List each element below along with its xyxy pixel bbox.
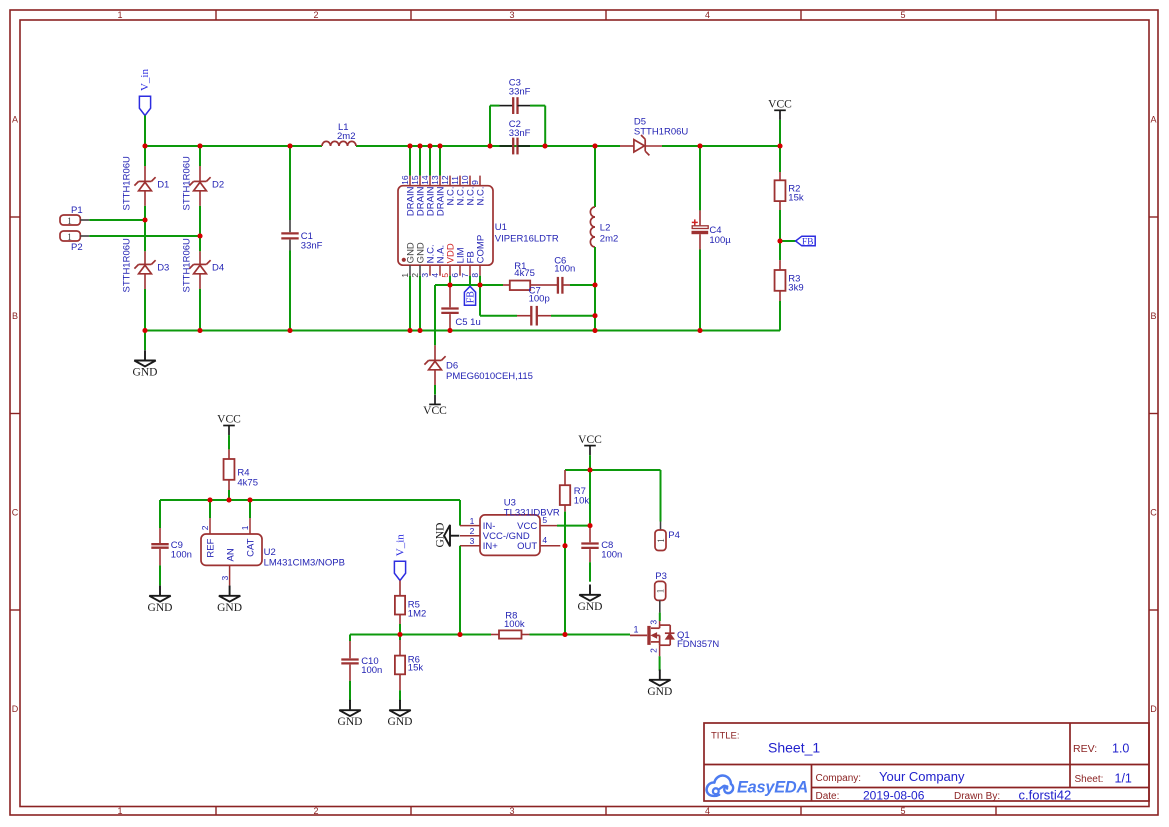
wire VCC rail	[565, 469, 661, 471]
svg-text:2: 2	[313, 10, 318, 20]
svg-text:7: 7	[460, 273, 470, 278]
svg-text:GND: GND	[647, 686, 672, 698]
ground	[133, 331, 158, 379]
ground	[388, 700, 413, 728]
svg-text:4: 4	[542, 535, 547, 545]
inductor L2 2m2	[590, 146, 618, 331]
diode D1 STTH1R06U	[121, 146, 169, 220]
node	[198, 234, 203, 239]
wire COMP to C7	[480, 285, 517, 316]
svg-text:B: B	[12, 311, 18, 321]
wire VDD to D6	[434, 285, 436, 345]
ground	[647, 670, 672, 698]
svg-text:33nF: 33nF	[509, 128, 531, 139]
svg-text:1.0: 1.0	[1112, 742, 1129, 756]
svg-text:REV:: REV:	[1073, 743, 1097, 755]
IC U2 LM431CIM3/NOPB	[200, 500, 345, 585]
svg-text:STTH1R06U: STTH1R06U	[634, 126, 689, 137]
svg-text:1: 1	[117, 806, 122, 816]
svg-text:D4: D4	[212, 263, 224, 274]
svg-text:100n: 100n	[601, 549, 622, 560]
capacitor C6 100n	[544, 256, 595, 294]
svg-text:1: 1	[657, 538, 667, 543]
svg-text:2: 2	[410, 273, 420, 278]
svg-text:COMP: COMP	[476, 235, 487, 264]
node junctions bottom rail	[143, 328, 703, 333]
svg-text:VCC: VCC	[517, 521, 537, 532]
capacitor C10 100n	[341, 635, 382, 701]
svg-text:FDN357N: FDN357N	[677, 639, 719, 650]
power flag VCC	[217, 414, 241, 450]
wire	[144, 116, 146, 147]
svg-text:Company:: Company:	[816, 773, 862, 784]
svg-text:GND: GND	[217, 602, 242, 614]
wire R7/OUT to lower rail	[564, 546, 566, 635]
capacitor C2 33nF	[500, 119, 531, 154]
wire lower rail	[350, 634, 630, 636]
svg-text:D3: D3	[157, 263, 169, 274]
connector P1	[60, 205, 89, 227]
resistor R8 100k	[491, 610, 530, 638]
node	[478, 283, 483, 288]
svg-text:13: 13	[430, 175, 440, 185]
svg-text:VCC: VCC	[768, 99, 792, 111]
svg-text:C: C	[12, 508, 19, 518]
diode D3 STTH1R06U	[121, 220, 169, 331]
wire	[89, 219, 145, 221]
wire R4 node to IN-	[459, 500, 461, 526]
resistor R3 3k9	[775, 241, 804, 331]
svg-text:1: 1	[633, 625, 638, 635]
net flag V_in	[394, 534, 406, 581]
IC U1 VIPER16LDTR	[398, 146, 559, 278]
wire U1 GND pins	[410, 276, 420, 331]
node	[593, 283, 598, 288]
svg-text:10k: 10k	[574, 496, 590, 507]
diode D5 STTH1R06U	[620, 117, 688, 156]
svg-text:GND: GND	[388, 716, 413, 728]
svg-text:2m2: 2m2	[600, 233, 618, 244]
svg-text:3: 3	[509, 806, 514, 816]
svg-text:GND: GND	[578, 601, 603, 613]
resistor R6 15k	[395, 635, 423, 701]
svg-text:5: 5	[900, 10, 905, 20]
svg-text:1: 1	[470, 516, 475, 526]
resistor R1 4k75	[503, 261, 544, 290]
svg-text:16: 16	[400, 175, 410, 185]
svg-text:1: 1	[117, 10, 122, 20]
svg-text:IN+: IN+	[483, 541, 499, 552]
ground	[217, 586, 242, 614]
svg-text:11: 11	[450, 176, 460, 185]
svg-text:8: 8	[470, 273, 480, 278]
ground	[338, 700, 363, 728]
node junctions	[398, 632, 568, 637]
svg-text:100p: 100p	[529, 294, 550, 305]
svg-text:OUT: OUT	[517, 541, 537, 552]
svg-text:CAT: CAT	[246, 538, 257, 556]
wire VDD node	[435, 276, 450, 285]
node	[448, 283, 453, 288]
svg-text:4: 4	[705, 806, 710, 816]
wire Q1 source to ground	[659, 656, 661, 671]
node OUT junction	[563, 543, 568, 548]
capacitor C5 1u	[441, 285, 480, 331]
connector P4	[655, 470, 680, 551]
svg-text:GND: GND	[148, 602, 173, 614]
wire U2 top rail	[160, 499, 460, 501]
svg-text:P4: P4	[668, 530, 680, 541]
svg-text:D: D	[1150, 704, 1157, 714]
resistor R5 1M2	[395, 581, 426, 635]
svg-text:14: 14	[420, 175, 430, 185]
svg-text:1: 1	[67, 217, 72, 227]
svg-text:A: A	[1150, 115, 1156, 125]
wire bottom rail	[145, 330, 780, 332]
svg-text:V_in: V_in	[394, 534, 406, 557]
transistor Q1 FDN357N	[630, 620, 719, 657]
svg-text:LM431CIM3/NOPB: LM431CIM3/NOPB	[264, 558, 345, 569]
wire	[589, 470, 591, 526]
wire VCC pin5	[557, 525, 590, 527]
connector P2	[60, 231, 89, 253]
svg-text:A: A	[12, 115, 18, 125]
svg-text:P3: P3	[655, 571, 667, 582]
inductor L1 2m2	[322, 122, 356, 146]
net flag FB	[464, 276, 476, 306]
svg-text:GND: GND	[434, 523, 446, 548]
svg-text:EasyEDA: EasyEDA	[737, 779, 808, 797]
svg-text:1: 1	[400, 273, 410, 278]
svg-text:5: 5	[900, 806, 905, 816]
node junctions top rail	[143, 144, 783, 149]
svg-text:15k: 15k	[788, 192, 804, 203]
svg-text:REF: REF	[206, 538, 217, 557]
svg-text:33nF: 33nF	[301, 241, 323, 252]
svg-text:C5 1u: C5 1u	[455, 317, 480, 328]
svg-text:L2: L2	[600, 223, 611, 234]
svg-text:D1: D1	[157, 180, 169, 191]
node	[588, 523, 593, 528]
svg-text:9: 9	[470, 180, 480, 185]
node	[593, 313, 598, 318]
svg-text:C: C	[1150, 508, 1157, 518]
capacitor C4 100u	[692, 146, 732, 331]
svg-text:3k9: 3k9	[788, 282, 803, 293]
resistor R7 10k	[560, 470, 590, 546]
svg-text:1: 1	[240, 525, 250, 530]
comparator U3 TL331IDBVR	[460, 498, 560, 556]
net flag V_in	[139, 69, 151, 116]
power flag VCC	[423, 395, 447, 417]
svg-text:Sheet_1: Sheet_1	[768, 740, 820, 756]
capacitor C3 33nF	[500, 77, 531, 114]
svg-text:P2: P2	[71, 242, 83, 253]
svg-text:AN: AN	[226, 548, 237, 561]
node junctions	[208, 498, 253, 503]
svg-text:100n: 100n	[554, 263, 575, 274]
wire	[89, 235, 200, 237]
resistor R2 15k	[775, 146, 804, 241]
svg-text:Date:: Date:	[816, 791, 840, 802]
svg-text:15: 15	[410, 175, 420, 185]
svg-text:3: 3	[470, 536, 475, 546]
svg-text:3: 3	[220, 575, 230, 580]
svg-text:2: 2	[649, 648, 659, 653]
ground flag pin2	[434, 523, 459, 548]
svg-text:2: 2	[470, 526, 475, 536]
ground	[148, 586, 173, 614]
wire COMP pin	[450, 276, 503, 285]
svg-text:B: B	[1150, 311, 1156, 321]
svg-text:STTH1R06U: STTH1R06U	[181, 238, 192, 293]
wire top rail	[145, 145, 780, 147]
svg-text:4: 4	[430, 273, 440, 278]
svg-text:3: 3	[509, 10, 514, 20]
svg-text:U2: U2	[264, 547, 276, 558]
svg-text:100µ: 100µ	[709, 235, 731, 246]
svg-text:V_in: V_in	[139, 69, 151, 92]
svg-text:D2: D2	[212, 180, 224, 191]
svg-text:U1: U1	[495, 222, 507, 233]
svg-text:3: 3	[649, 620, 659, 625]
capacitor C7 100p	[517, 285, 595, 325]
node	[143, 218, 148, 223]
node	[778, 239, 783, 244]
diode D2 STTH1R06U	[181, 146, 224, 236]
svg-text:2: 2	[313, 806, 318, 816]
svg-text:STTH1R06U: STTH1R06U	[181, 156, 192, 211]
capacitor C1 33nF	[281, 146, 322, 331]
svg-text:STTH1R06U: STTH1R06U	[121, 238, 132, 293]
svg-text:1M2: 1M2	[408, 608, 426, 619]
svg-text:1: 1	[657, 588, 667, 593]
svg-text:VCC: VCC	[217, 414, 241, 426]
resistor R4 4k75	[224, 449, 258, 500]
svg-text:2: 2	[200, 525, 210, 530]
svg-text:TITLE:: TITLE:	[711, 731, 740, 742]
svg-text:STTH1R06U: STTH1R06U	[121, 156, 132, 211]
power flag VCC	[578, 434, 602, 470]
svg-text:TL331IDBVR: TL331IDBVR	[504, 508, 560, 519]
svg-text:3: 3	[420, 273, 430, 278]
svg-text:N.C.: N.C.	[476, 187, 487, 206]
svg-text:PMEG6010CEH,115: PMEG6010CEH,115	[446, 371, 533, 382]
connector P3	[655, 571, 667, 621]
svg-text:33nF: 33nF	[509, 87, 531, 98]
svg-text:4k75: 4k75	[237, 477, 258, 488]
svg-text:2019-08-06: 2019-08-06	[863, 788, 925, 802]
svg-text:10: 10	[460, 175, 470, 185]
capacitor C9 100n	[151, 500, 192, 585]
svg-text:4k75: 4k75	[514, 268, 535, 279]
svg-text:1/1: 1/1	[1115, 772, 1132, 786]
svg-text:GND: GND	[338, 716, 363, 728]
svg-text:FB: FB	[802, 238, 814, 248]
svg-text:FB: FB	[466, 291, 477, 304]
net flag FB	[780, 236, 815, 247]
svg-text:VCC: VCC	[423, 405, 447, 417]
svg-text:D: D	[12, 704, 19, 714]
diode D6 PMEG6010CEH,115	[424, 345, 533, 394]
svg-text:Drawn By:: Drawn By:	[954, 791, 1000, 802]
svg-text:5: 5	[440, 273, 450, 278]
wire C2/C3 branch	[490, 106, 545, 146]
svg-text:Your Company: Your Company	[879, 769, 965, 784]
svg-text:c.forsti42: c.forsti42	[1019, 787, 1072, 802]
svg-text:Sheet:: Sheet:	[1075, 774, 1104, 785]
svg-text:15k: 15k	[408, 663, 424, 674]
svg-text:12: 12	[440, 175, 450, 185]
node	[588, 468, 593, 473]
svg-text:VIPER16LDTR: VIPER16LDTR	[495, 233, 559, 244]
svg-text:100k: 100k	[504, 619, 525, 630]
power flag VCC	[768, 99, 792, 147]
svg-text:VCC: VCC	[578, 434, 602, 446]
svg-text:6: 6	[450, 273, 460, 278]
svg-text:100n: 100n	[361, 665, 382, 676]
svg-text:100n: 100n	[171, 550, 192, 561]
svg-text:GND: GND	[133, 367, 158, 379]
wire IN+ to lower rail	[459, 546, 461, 635]
node junction overlay	[143, 144, 783, 638]
svg-text:4: 4	[705, 10, 710, 20]
capacitor C8 100n	[581, 526, 622, 582]
diode D4 STTH1R06U	[181, 236, 224, 331]
ground	[578, 585, 603, 613]
svg-text:2m2: 2m2	[337, 131, 355, 142]
